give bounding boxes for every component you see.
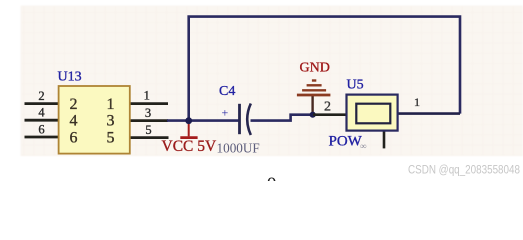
svg-text:0: 0 bbox=[267, 175, 277, 182]
svg-text:1000UF: 1000UF bbox=[217, 141, 260, 156]
svg-text:1: 1 bbox=[414, 95, 420, 109]
svg-text:1: 1 bbox=[144, 89, 150, 103]
svg-text:VCC 5V: VCC 5V bbox=[162, 138, 217, 155]
svg-text:1: 1 bbox=[107, 96, 115, 113]
svg-text:3: 3 bbox=[107, 113, 115, 130]
svg-text:+: + bbox=[222, 106, 229, 120]
svg-text:5: 5 bbox=[145, 123, 151, 137]
svg-text:CSDN @qq_2083558048: CSDN @qq_2083558048 bbox=[408, 165, 520, 177]
svg-text:U5: U5 bbox=[347, 78, 364, 93]
svg-text:2: 2 bbox=[70, 96, 78, 113]
svg-text:6: 6 bbox=[38, 122, 44, 136]
svg-text:2: 2 bbox=[324, 100, 331, 115]
svg-text:4: 4 bbox=[70, 113, 78, 130]
svg-text:2: 2 bbox=[38, 89, 44, 103]
svg-text:∞: ∞ bbox=[360, 141, 366, 151]
svg-text:C4: C4 bbox=[219, 84, 235, 99]
svg-text:5: 5 bbox=[107, 130, 115, 147]
svg-text:6: 6 bbox=[70, 130, 78, 147]
svg-text:POW: POW bbox=[329, 134, 363, 150]
svg-text:3: 3 bbox=[145, 106, 151, 120]
svg-text:GND: GND bbox=[300, 61, 330, 76]
svg-text:U13: U13 bbox=[58, 70, 82, 85]
svg-text:4: 4 bbox=[38, 106, 45, 120]
